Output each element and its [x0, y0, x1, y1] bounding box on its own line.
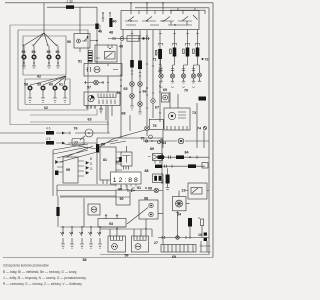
col 153 switch	[151, 30, 155, 118]
lamp A1	[130, 82, 135, 94]
cluster 58 dots	[62, 226, 100, 227]
lamp R3	[181, 74, 185, 78]
alternator box 55	[84, 64, 122, 77]
svg-text:90: 90	[120, 197, 124, 201]
svg-text:85: 85	[118, 188, 122, 192]
svg-text:57: 57	[87, 86, 91, 90]
ignition coil feed wire	[44, 3, 97, 33]
resistor 51	[78, 51, 92, 64]
feeds to switch	[131, 3, 195, 10]
svg-text:71: 71	[153, 58, 157, 62]
border bottom	[3, 255, 213, 258]
svg-text:91: 91	[137, 186, 141, 190]
relay row 48 49	[108, 31, 150, 49]
fuse F top	[66, 5, 74, 9]
svg-text:58: 58	[24, 83, 28, 87]
switch S5	[98, 227, 103, 248]
spark plug 96	[56, 46, 61, 68]
svg-text:63: 63	[88, 118, 92, 122]
svg-text:51: 51	[78, 60, 82, 64]
fuse cA	[130, 30, 134, 82]
svg-text:67: 67	[155, 106, 159, 110]
inner box 2	[25, 79, 70, 105]
wire alt down	[107, 76, 109, 133]
svg-text:70: 70	[184, 88, 188, 92]
bus wire row 2	[0, 137, 97, 145]
marks 40	[102, 12, 111, 22]
pin labels	[90, 157, 93, 171]
svg-text:72: 72	[205, 58, 209, 62]
svg-text:12:88: 12:88	[113, 177, 138, 184]
svg-text:59: 59	[37, 83, 41, 87]
switch drops	[123, 30, 198, 48]
connector blob A	[95, 24, 98, 30]
blob right	[199, 97, 207, 101]
svg-text:46: 46	[98, 30, 102, 34]
device 89 horn	[148, 147, 165, 164]
wires near 93	[60, 197, 146, 236]
svg-text:93: 93	[109, 222, 113, 226]
svg-text:95: 95	[66, 168, 70, 172]
coil feed wire	[79, 7, 81, 33]
gauge 24	[173, 191, 190, 217]
spark plug 93	[22, 46, 27, 68]
diagonal harness to box80	[53, 144, 97, 163]
label 72	[202, 58, 209, 62]
svg-text:58: 58	[83, 258, 87, 262]
svg-text:27: 27	[154, 241, 158, 245]
svg-text:22: 22	[182, 189, 186, 193]
svg-text:84: 84	[162, 141, 166, 145]
enclosure A (top-left cluster outer)	[10, 25, 100, 110]
lamp R4	[191, 74, 195, 78]
motor box M2	[132, 236, 149, 252]
lamp B1	[138, 82, 143, 102]
left feed resistor	[56, 196, 59, 227]
switch S1	[61, 227, 66, 248]
relay 50	[67, 34, 90, 53]
feed dots	[130, 2, 163, 3]
injector 59	[37, 83, 45, 103]
dark squares right	[198, 233, 207, 242]
switch S3	[80, 227, 85, 248]
svg-text:69: 69	[172, 255, 176, 259]
injector 61	[59, 83, 67, 103]
wire left box95	[52, 150, 54, 196]
harness diagonals center	[97, 130, 145, 147]
enclosure A bottom step lines	[10, 109, 108, 125]
gear sensor wire	[158, 138, 209, 144]
right corner wires	[200, 241, 211, 252]
fuel sender 98	[127, 197, 163, 225]
svg-text:61: 61	[59, 83, 63, 87]
lamp near 91	[128, 186, 163, 193]
sensor 77	[72, 129, 93, 145]
lamp A2	[130, 94, 135, 110]
lamp R5	[198, 73, 202, 77]
spark plug 94	[32, 46, 37, 68]
comp 74	[197, 126, 207, 130]
box 75	[149, 119, 163, 129]
svg-text:J — żółty, M — brązowy, N — cz: J — żółty, M — brązowy, N — czarny, O — …	[3, 276, 86, 280]
svg-text:99: 99	[148, 187, 152, 191]
svg-text:86: 86	[116, 160, 120, 164]
motor feed bus	[100, 228, 152, 237]
right lamp wires	[161, 57, 200, 74]
ground under 63	[86, 106, 112, 121]
lamp C1	[145, 126, 150, 136]
svg-text:88: 88	[145, 169, 149, 173]
distributor box 63	[84, 92, 120, 122]
svg-text:4 5: 4 5	[46, 137, 51, 141]
svg-text:40: 40	[113, 20, 117, 24]
cluster 58 bus	[60, 226, 126, 228]
box 81	[100, 147, 122, 184]
svg-text:G: G	[90, 167, 93, 171]
injector 58	[24, 83, 32, 103]
bus wire row 1	[0, 127, 110, 135]
switch S2	[70, 227, 75, 248]
pins 95 to 81	[78, 161, 89, 176]
wire row 166	[155, 163, 208, 169]
svg-text:R — czerwony, S — różowy, Z —: R — czerwony, S — różowy, Z — zielony, V…	[3, 282, 82, 286]
lamp R1	[159, 74, 163, 78]
svg-text:50: 50	[67, 40, 71, 44]
border right inner	[135, 8, 209, 255]
box 80 outline	[97, 138, 162, 184]
junction dot	[107, 82, 108, 83]
lamp B2	[138, 102, 143, 114]
lamp 57	[84, 80, 104, 89]
wire x163	[162, 180, 164, 246]
relay box 52	[95, 45, 117, 62]
svg-text:68: 68	[122, 112, 126, 116]
wire under cE	[159, 81, 161, 122]
ign switch box	[121, 11, 199, 30]
switch 22	[182, 183, 210, 199]
switch S4	[89, 227, 94, 248]
col wire 147	[146, 30, 148, 126]
svg-text:64: 64	[117, 91, 121, 95]
drop ticks	[131, 34, 199, 37]
heater blob a	[188, 218, 192, 238]
resistor on box80 edge	[96, 144, 99, 153]
plug row2 fan	[30, 76, 66, 85]
fuse cE	[155, 30, 162, 75]
svg-text:62: 62	[44, 106, 48, 110]
svg-text:60: 60	[49, 83, 53, 87]
svg-text:76: 76	[74, 127, 78, 131]
svg-text:16: 16	[198, 233, 202, 237]
svg-text:81: 81	[103, 158, 107, 162]
enclosure B	[18, 30, 88, 110]
fuse cB	[138, 30, 142, 82]
box 95	[55, 157, 78, 183]
ground chevrons	[160, 87, 196, 89]
svg-text:73: 73	[192, 111, 196, 115]
fuse r2	[170, 48, 177, 57]
svg-text:77: 77	[74, 141, 78, 145]
mark 84	[158, 141, 167, 146]
wires into wiper box	[170, 92, 178, 108]
component 88	[153, 174, 164, 183]
relay 86	[116, 146, 133, 170]
svg-text:B: B	[90, 157, 92, 161]
svg-text:74: 74	[197, 127, 201, 131]
bus wire 237	[154, 236, 209, 245]
wire x178 down	[176, 211, 179, 238]
inner box 92	[23, 36, 66, 75]
motor box M1	[108, 236, 126, 252]
lighter box	[162, 93, 170, 102]
fuse r4	[193, 48, 200, 57]
svg-text:B — biały, Bl — niebieski, Be: B — biały, Bl — niebieski, Be — beżowy, …	[3, 270, 77, 274]
lamp R2	[170, 74, 174, 78]
spark plug 95	[47, 46, 52, 68]
grounds under right lamps	[159, 77, 201, 83]
label 99	[145, 187, 152, 191]
label 76b	[130, 115, 152, 140]
box 90	[116, 185, 135, 205]
connector blob B	[109, 18, 112, 27]
right verticals mid	[163, 103, 204, 148]
motor box 93b	[88, 204, 100, 215]
svg-text:75: 75	[153, 124, 157, 128]
svg-text:95: 95	[47, 50, 51, 54]
clock 85	[111, 172, 142, 192]
svg-text:69: 69	[163, 88, 167, 92]
svg-text:89: 89	[150, 147, 154, 151]
svg-text:94: 94	[32, 50, 36, 54]
svg-text:Oznaczenia kolorów przewodów: Oznaczenia kolorów przewodów	[3, 264, 49, 268]
heater comp b	[199, 217, 204, 238]
box 93 label	[98, 214, 126, 227]
svg-text:48: 48	[109, 31, 113, 35]
svg-text:70: 70	[141, 136, 145, 140]
plug row1 junction dots	[23, 62, 58, 63]
border right outer	[212, 3, 214, 258]
fuse r3	[183, 48, 190, 57]
svg-text:4 6: 4 6	[46, 127, 51, 131]
distributor fan wires	[22, 33, 58, 46]
gear wire left	[143, 140, 158, 142]
right ticks	[159, 69, 195, 71]
svg-text:93: 93	[22, 50, 26, 54]
col wire 121	[120, 42, 122, 139]
svg-text:92: 92	[37, 75, 41, 79]
wiper motor box 73	[164, 108, 196, 130]
fuse bracket marks	[158, 44, 200, 46]
component 88b	[145, 168, 170, 189]
box 69	[161, 245, 196, 260]
svg-text:66: 66	[143, 90, 147, 94]
svg-text:D: D	[90, 162, 93, 166]
svg-text:96: 96	[56, 50, 60, 54]
wire to coil node	[90, 7, 98, 63]
svg-text:65: 65	[124, 87, 128, 91]
svg-text:84: 84	[185, 151, 189, 155]
hlines under 80	[57, 185, 116, 196]
svg-text:56: 56	[125, 254, 129, 258]
wire row 157	[158, 151, 210, 160]
border top bus	[5, 2, 213, 4]
svg-text:1 30: 1 30	[67, 0, 73, 4]
injector 60	[49, 83, 57, 103]
